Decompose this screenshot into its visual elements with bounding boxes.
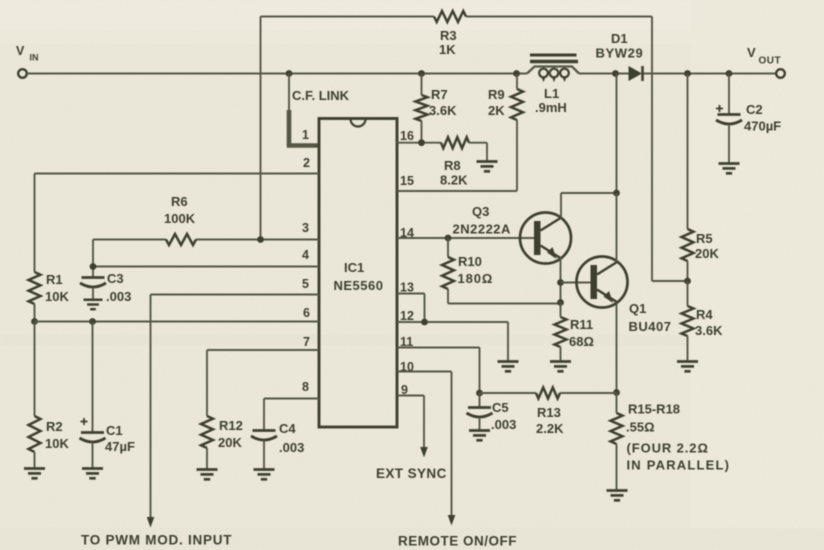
svg-text:(FOUR 2.2Ω: (FOUR 2.2Ω (627, 441, 709, 456)
resistor R4 (682, 281, 724, 361)
node VOUT terminal (747, 45, 785, 78)
svg-text:R12: R12 (219, 418, 243, 433)
wire feedback right drop (652, 17, 688, 282)
wire pin 7 (207, 350, 319, 416)
resistor R2 (29, 322, 70, 469)
node pin labels left (302, 128, 310, 394)
svg-text:2.2K: 2.2K (536, 421, 564, 436)
resistor R1 (29, 272, 70, 304)
svg-text:8: 8 (302, 380, 309, 394)
capacitor C2 (716, 74, 781, 164)
svg-text:V: V (747, 45, 756, 60)
wire pin 6 rail (35, 321, 320, 323)
svg-text:2N2222A: 2N2222A (453, 222, 512, 237)
svg-text:R2: R2 (46, 419, 63, 434)
resistor R6 (164, 194, 196, 245)
wire Q3 collector (561, 193, 617, 219)
svg-text:EXT SYNC: EXT SYNC (376, 466, 447, 481)
svg-text:Q1: Q1 (629, 301, 646, 316)
resistor R7 (416, 74, 458, 143)
diode D1 (596, 31, 644, 81)
svg-text:Q3: Q3 (472, 204, 489, 219)
svg-text:R11: R11 (570, 317, 593, 332)
svg-text:47µF: 47µF (105, 439, 135, 454)
wire pin 8 (264, 399, 319, 430)
svg-text:R4: R4 (696, 307, 713, 322)
svg-text:R1: R1 (46, 272, 63, 287)
resistor R8 (440, 137, 487, 187)
svg-text:6: 6 (303, 306, 310, 320)
svg-text:R13: R13 (537, 405, 561, 420)
wire pin 12 to ground (397, 319, 508, 361)
svg-text:C5: C5 (492, 400, 509, 415)
node pin labels right (400, 129, 414, 397)
wire C.F. LINK to pin 1 (287, 74, 350, 146)
svg-text:10K: 10K (45, 289, 69, 304)
svg-text:R7: R7 (431, 87, 448, 102)
resistor R15-R18 (611, 393, 731, 491)
svg-text:.9mH: .9mH (535, 100, 567, 115)
ground R15-R18 (607, 491, 628, 501)
resistor R3 (434, 11, 466, 57)
resistor R13 (480, 388, 617, 437)
wire R1 to junction (31, 304, 38, 325)
ground R12 (197, 470, 218, 480)
ground R4 (677, 362, 698, 372)
svg-text:C3: C3 (107, 271, 124, 286)
wire top feedback rail (261, 16, 653, 18)
svg-text:1K: 1K (439, 42, 456, 57)
wire pin 13 (397, 294, 425, 323)
svg-text:L1: L1 (544, 86, 559, 101)
ground R8 (477, 162, 498, 172)
svg-text:100K: 100K (164, 211, 196, 226)
svg-text:R6: R6 (171, 194, 188, 209)
svg-text:R15-R18: R15-R18 (628, 402, 680, 417)
resistor R5 (682, 74, 720, 285)
wire feedback left drop (260, 17, 262, 240)
resistor R11 (555, 299, 594, 361)
wire Q1 collector riser (613, 74, 620, 263)
svg-text:V: V (16, 44, 25, 58)
svg-text:2K: 2K (488, 103, 505, 118)
wire pin 14 to Q3 base (397, 235, 534, 242)
node TO PWM MOD. INPUT (81, 533, 232, 548)
op-amp U1 IC1 NE5560 body (319, 119, 397, 428)
node REMOTE ON/OFF (398, 534, 517, 549)
transistor Q3 2N2222A (453, 204, 572, 264)
svg-text:BYW29: BYW29 (596, 46, 644, 61)
ground C3 (84, 300, 103, 309)
svg-text:15: 15 (400, 174, 414, 188)
svg-text:.003: .003 (491, 417, 516, 432)
svg-text:IC1: IC1 (344, 260, 364, 275)
inductor L1 (527, 55, 579, 115)
ground C4 (254, 470, 275, 480)
ground C2 (719, 164, 740, 174)
transistor Q1 BU407 (577, 257, 672, 335)
ground R11 (550, 362, 571, 372)
wire Q3 emitter to Q1 base (557, 258, 590, 303)
node EXT SYNC (376, 466, 447, 481)
svg-text:20K: 20K (218, 435, 242, 450)
svg-text:C4: C4 (279, 421, 296, 436)
svg-text:D1: D1 (611, 31, 628, 46)
svg-text:R3: R3 (440, 28, 457, 43)
wire pin 15 (397, 190, 517, 192)
svg-text:IN PARALLEL): IN PARALLEL) (627, 458, 731, 473)
wire pin 10 to remote arrow (397, 372, 455, 526)
wire pin 16 (397, 139, 441, 146)
svg-text:10K: 10K (45, 436, 69, 451)
capacitor C5 (467, 390, 517, 432)
wire pin 4 (90, 240, 319, 278)
svg-text:R8: R8 (444, 158, 461, 173)
resistor R9 (488, 74, 523, 192)
svg-text:7: 7 (303, 335, 310, 349)
resistor R12 (201, 416, 243, 469)
svg-text:3: 3 (302, 221, 309, 235)
ground C1 (82, 469, 103, 479)
svg-text:TO PWM MOD. INPUT: TO PWM MOD. INPUT (81, 533, 232, 548)
svg-text:REMOTE ON/OFF: REMOTE ON/OFF (398, 534, 517, 549)
capacitor C4 (251, 421, 304, 469)
svg-text:.003: .003 (279, 440, 304, 455)
wire VIN rail (27, 73, 776, 75)
svg-text:NE5560: NE5560 (334, 278, 384, 293)
wire pin 3 (93, 236, 319, 243)
svg-text:C1: C1 (106, 423, 123, 438)
svg-text:8.2K: 8.2K (440, 173, 468, 188)
svg-text:3.6K: 3.6K (695, 323, 723, 338)
svg-text:C.F. LINK: C.F. LINK (292, 88, 350, 103)
wire pin 5 to PWM arrow (147, 295, 319, 528)
resistor R10 (442, 238, 561, 304)
ground pins 12 13 (498, 362, 519, 372)
svg-text:2: 2 (303, 156, 310, 170)
junction dots on VIN rail (286, 70, 733, 77)
svg-text:5: 5 (302, 277, 309, 291)
svg-text:R9: R9 (488, 87, 505, 102)
node VIN terminal (16, 44, 39, 78)
svg-text:20K: 20K (695, 246, 719, 261)
capacitor C1 (80, 318, 135, 468)
svg-text:.55Ω: .55Ω (626, 420, 655, 435)
svg-text:4: 4 (302, 248, 309, 262)
svg-text:16: 16 (400, 129, 414, 143)
svg-text:68Ω: 68Ω (569, 334, 594, 349)
svg-text:.003: .003 (106, 289, 131, 304)
svg-text:13: 13 (400, 281, 414, 295)
svg-text:3.6K: 3.6K (429, 103, 457, 118)
svg-text:R10: R10 (458, 254, 482, 269)
svg-text:180Ω: 180Ω (458, 271, 494, 286)
svg-text:IN: IN (30, 53, 39, 63)
svg-text:12: 12 (400, 309, 414, 323)
svg-text:BU407: BU407 (629, 319, 672, 334)
ground R2 (24, 469, 45, 479)
svg-text:C2: C2 (746, 102, 763, 117)
svg-text:R5: R5 (696, 231, 713, 246)
wire Q1 emitter drop (613, 303, 620, 396)
wire pin 9 to ext sync arrow (397, 396, 428, 458)
svg-text:OUT: OUT (759, 56, 782, 67)
capacitor C3 (80, 271, 131, 304)
wire pin 2 (35, 174, 320, 273)
ground C5 (469, 431, 490, 441)
wire pin 11 (397, 348, 480, 394)
svg-text:1: 1 (302, 128, 309, 142)
svg-text:470µF: 470µF (744, 119, 781, 134)
